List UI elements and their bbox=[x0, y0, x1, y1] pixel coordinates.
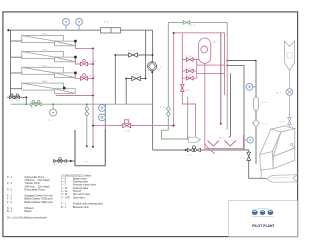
svg-text:HX-2: HX-2 bbox=[42, 50, 48, 52]
wire HX2 inlet stub bbox=[11, 56, 23, 58]
valve drain pair a bbox=[187, 148, 193, 152]
wire V2 drop to machine bbox=[244, 150, 249, 152]
banner label bbox=[266, 175, 297, 183]
wire pink tap HX4 bbox=[56, 95, 93, 97]
valve green check pair on drop bbox=[85, 107, 89, 116]
wire pink riser left bbox=[92, 48, 94, 146]
svg-text:V - 16: V - 16 bbox=[186, 56, 193, 58]
valve V-5 bbox=[132, 76, 141, 80]
svg-text:Basket Strainer 1984u pore: Basket Strainer 1984u pore bbox=[25, 201, 54, 204]
instrument FI right bbox=[253, 86, 256, 88]
valve V-2 vertical at machine bbox=[247, 152, 251, 160]
wire bypass V4 branch bbox=[115, 54, 152, 56]
wire pink hose bbox=[205, 144, 215, 154]
wire ladder right rail bbox=[196, 60, 198, 79]
enclosure bottom bbox=[205, 148, 244, 150]
svg-text:V - 4: V - 4 bbox=[130, 50, 135, 52]
HX labels bbox=[42, 33, 48, 83]
svg-text:A - 1: A - 1 bbox=[277, 91, 282, 94]
wire green header bbox=[11, 103, 153, 105]
instrument TI-2 bbox=[102, 107, 106, 109]
instrument PI-1 bbox=[65, 26, 67, 31]
sawtooth trough bbox=[208, 141, 237, 146]
instrument PI-2 bbox=[102, 116, 106, 118]
valve V-11 circle top bbox=[83, 59, 86, 62]
wire right stub lower bbox=[227, 64, 244, 66]
svg-text:Basket Strainer 3750u pore: Basket Strainer 3750u pore bbox=[25, 198, 54, 201]
bag flag top right bbox=[285, 41, 295, 71]
svg-text:Bypass valve: Bypass valve bbox=[73, 178, 87, 180]
iso machine bbox=[260, 126, 295, 170]
enclosure left edge / capsule drain bbox=[204, 63, 206, 148]
instrument circles top bbox=[63, 19, 256, 144]
svg-text:Aquagard Screen 7mm slot: Aquagard Screen 7mm slot bbox=[25, 195, 54, 198]
svg-text:V - 14: V - 14 bbox=[186, 75, 193, 77]
wire HX4 inlet stub bbox=[11, 88, 23, 90]
wire top supply line bbox=[8, 29, 153, 31]
svg-text:V - 8: V - 8 bbox=[280, 121, 285, 123]
svg-text:Drain valve: Drain valve bbox=[73, 196, 85, 199]
pump P-1 stem bbox=[52, 104, 54, 109]
svg-text:Recirculation Pump: Recirculation Pump bbox=[25, 189, 46, 192]
valve ladder 1 V-16 bbox=[186, 58, 193, 62]
svg-text:PILOT PLANT: PILOT PLANT bbox=[252, 224, 275, 228]
valve V-13 with actuator bbox=[123, 123, 131, 127]
wire valve to machine bbox=[289, 125, 291, 129]
wire bypass V5 branch bbox=[126, 78, 145, 80]
svg-text:V - 5: V - 5 bbox=[133, 74, 138, 76]
valve V-8 vertical bbox=[288, 118, 292, 125]
enclosure right edge lower bbox=[242, 135, 244, 149]
strainer F-3 bbox=[61, 159, 66, 162]
svg-text:Portable tank (cleaning tank): Portable tank (cleaning tank) bbox=[73, 203, 103, 206]
blower A-1 bbox=[286, 89, 293, 96]
svg-text:HX-1: HX-1 bbox=[42, 33, 48, 35]
wire flag to blower bbox=[289, 71, 291, 88]
wire main vertical bbox=[152, 30, 154, 150]
svg-text:Diffusers: Diffusers bbox=[25, 207, 35, 210]
svg-text:V - 8: V - 8 bbox=[61, 178, 67, 180]
svg-text:F - 3: F - 3 bbox=[7, 202, 12, 204]
wire stub B down bbox=[125, 79, 127, 105]
svg-text:B - 1: B - 1 bbox=[219, 137, 224, 139]
pink junction dots bbox=[92, 32, 175, 148]
instrument LI right bbox=[244, 139, 247, 141]
svg-text:HX-3: HX-3 bbox=[42, 65, 48, 67]
valve V-2 bbox=[15, 96, 20, 99]
svg-text:P - 2: P - 2 bbox=[7, 183, 13, 185]
svg-text:F - 6: F - 6 bbox=[262, 102, 267, 104]
wire pink tap HX1 bbox=[75, 41, 93, 48]
svg-text:Transfer Pump: Transfer Pump bbox=[25, 182, 41, 185]
wire ladder branch 1 bbox=[182, 59, 198, 61]
svg-text:(450 l/min ... 15m Head): (450 l/min ... 15m Head) bbox=[25, 186, 50, 188]
svg-text:V - 15: V - 15 bbox=[186, 67, 193, 69]
valve V-12 circle top bbox=[83, 74, 86, 77]
logo USU bbox=[252, 209, 274, 217]
valve V-13 actuator bbox=[125, 120, 129, 123]
small grey labels bbox=[10, 21, 285, 164]
rotameter F-6 bbox=[254, 97, 259, 111]
valve drain circle bbox=[192, 146, 195, 149]
svg-text:F - 2: F - 2 bbox=[7, 199, 12, 201]
wire drain line bottom bbox=[153, 149, 244, 151]
node drain bbox=[185, 149, 187, 151]
svg-text:16' x 1 by 6 UN diffraction in: 16' x 1 by 6 UN diffraction insert/tunne… bbox=[7, 217, 47, 220]
wire ladder branch 2 bbox=[182, 70, 196, 72]
node pump bottom bbox=[151, 71, 153, 73]
legend group 1 bbox=[7, 176, 54, 220]
enclosure B-1 box top bbox=[174, 32, 225, 34]
svg-text:B - 1: B - 1 bbox=[61, 207, 67, 209]
svg-text:HX-4: HX-4 bbox=[42, 80, 48, 83]
node HX outlet squares bbox=[63, 40, 77, 90]
svg-text:Vent off: Vent off bbox=[73, 190, 81, 193]
svg-text:V - 1/TR: V - 1/TR bbox=[61, 197, 70, 199]
wire ladder left rail bbox=[182, 33, 195, 140]
wire jacket feed lower bbox=[197, 72, 225, 74]
svg-text:V - 7: V - 7 bbox=[263, 124, 268, 126]
svg-text:A - 2: A - 2 bbox=[31, 106, 36, 109]
node right stubs bbox=[226, 60, 228, 62]
node valve line bbox=[25, 96, 27, 98]
wire green loop top bbox=[168, 21, 227, 23]
node main V4 bbox=[152, 54, 154, 56]
strainer circle bbox=[59, 158, 62, 161]
svg-text:V - 13: V - 13 bbox=[61, 188, 68, 190]
node fill line bbox=[70, 160, 72, 162]
title block box bbox=[229, 201, 298, 237]
GREY PIPING bbox=[7, 30, 266, 178]
wire pink horizontal to box bbox=[93, 125, 174, 127]
heat exchanger HX-3 bbox=[22, 67, 75, 77]
aerator A-2 circles bbox=[32, 100, 35, 103]
pump P-1 bbox=[50, 109, 57, 116]
PINK CIP NETWORK bbox=[56, 33, 244, 154]
node HX inlets bbox=[22, 40, 24, 42]
instrument TI-1 bbox=[78, 26, 80, 31]
wire in-box grey drop bbox=[187, 97, 189, 140]
svg-text:P - 3: P - 3 bbox=[7, 190, 13, 192]
filter F-8 bbox=[101, 28, 121, 33]
valve V-4 bbox=[129, 53, 138, 57]
drain arrow D-1 bbox=[188, 137, 200, 142]
wire stub A down bbox=[114, 55, 116, 104]
wire right vertical B bbox=[255, 61, 257, 98]
wire pink tap HX3 bbox=[75, 73, 93, 79]
wire green jog to drain arrow bbox=[161, 130, 188, 139]
svg-text:V - 7: V - 7 bbox=[61, 185, 67, 187]
pink labels bbox=[90, 42, 219, 133]
wire ladder branch 3 bbox=[182, 77, 196, 79]
svg-text:Solenoid valve: Solenoid valve bbox=[73, 188, 89, 190]
svg-text:Flushing valve: Flushing valve bbox=[73, 182, 89, 184]
wire in-box spray pipe bbox=[229, 73, 231, 137]
wire green right vertical bbox=[226, 22, 228, 129]
svg-text:F - 8: F - 8 bbox=[104, 21, 109, 23]
valve V-11 bbox=[81, 62, 88, 66]
wire HX1 inlet stub bbox=[11, 40, 23, 42]
svg-text:V - 13: V - 13 bbox=[124, 130, 131, 132]
valve drain pair b bbox=[195, 148, 201, 152]
wire pink tap HX2 bbox=[75, 57, 93, 64]
wire green loop left vertical bbox=[167, 22, 169, 130]
valve V-1 V-2 circles bbox=[11, 94, 13, 96]
svg-text:P - 2: P - 2 bbox=[157, 67, 162, 69]
svg-text:V - 2: V - 2 bbox=[240, 158, 245, 160]
svg-text:F - 5: F - 5 bbox=[160, 107, 165, 109]
svg-text:P - 1: P - 1 bbox=[7, 177, 13, 179]
svg-text:V - 14: V - 14 bbox=[61, 191, 68, 193]
aerator A-2 bbox=[31, 103, 41, 106]
svg-text:(450 l/min ... 15m Head): (450 l/min ... 15m Head) bbox=[25, 180, 50, 182]
node supply start bbox=[7, 29, 9, 31]
pink valves bbox=[81, 58, 194, 128]
valve V-12 bbox=[81, 76, 88, 80]
svg-text:T - 1: T - 1 bbox=[61, 204, 66, 206]
svg-text:V - 1: V - 1 bbox=[187, 154, 192, 156]
heat exchanger HX-1 bbox=[22, 36, 75, 46]
wire drop to green header bbox=[25, 97, 27, 104]
wire HX3 inlet stub bbox=[11, 72, 23, 74]
wire blower to valve bbox=[289, 95, 291, 117]
svg-text:B - 1: B - 1 bbox=[7, 211, 13, 213]
wire right vertical A bbox=[243, 65, 245, 150]
valve ladder 3 V-14 bbox=[186, 76, 193, 80]
svg-text:V - 16: V - 16 bbox=[61, 194, 68, 196]
green end dot bbox=[86, 145, 88, 147]
wire jacket feed upper bbox=[197, 64, 225, 66]
legend group 2 bbox=[61, 176, 103, 209]
HEAT EXCHANGERS bbox=[22, 36, 75, 94]
GREEN CIP NETWORK bbox=[11, 22, 228, 146]
green labels bbox=[31, 25, 196, 122]
wire pink riser to box top bbox=[173, 33, 175, 126]
svg-text:Submersible Pump: Submersible Pump bbox=[25, 176, 45, 179]
svg-text:1-13/8/10/12/13/11/21 Valves: 1-13/8/10/12/13/11/21 Valves bbox=[61, 176, 92, 178]
wire second vertical bbox=[145, 30, 147, 78]
heat exchanger HX-4 bbox=[22, 83, 75, 93]
green header junction dots bbox=[52, 104, 53, 105]
svg-text:Blower: Blower bbox=[25, 210, 32, 213]
svg-text:Pressure control valve: Pressure control valve bbox=[73, 184, 97, 187]
wire right stub upper bbox=[227, 60, 256, 62]
wire green drop to tank bbox=[86, 104, 88, 146]
svg-text:B - 1: B - 1 bbox=[213, 42, 218, 44]
enclosure right edge upper bbox=[224, 33, 226, 95]
strainer F-2 bbox=[54, 159, 59, 162]
wire machine to banner bbox=[260, 170, 262, 178]
wire valve line V1 V2 bbox=[7, 96, 27, 98]
check valve diamond V-7 bbox=[253, 119, 260, 127]
heat exchanger HX-2 bbox=[22, 52, 75, 62]
wire tank inlet pipe bbox=[104, 104, 106, 130]
valve V-1 bbox=[10, 53, 201, 152]
svg-text:V - 9: V - 9 bbox=[61, 182, 67, 184]
svg-text:Bioreactor tank: Bioreactor tank bbox=[73, 206, 89, 209]
svg-text:V - 6: V - 6 bbox=[191, 25, 196, 27]
valve green pair on loop vertical bbox=[166, 107, 170, 117]
svg-text:V - 12: V - 12 bbox=[90, 75, 97, 77]
svg-text:T - 1: T - 1 bbox=[84, 162, 89, 164]
wire tank fill line bbox=[53, 160, 75, 162]
pump P-2 bbox=[148, 62, 157, 71]
svg-text:Non return valve: Non return valve bbox=[73, 193, 91, 196]
svg-text:V - 11: V - 11 bbox=[90, 61, 96, 63]
wire left manifold bbox=[10, 30, 12, 97]
valve ladder 2 V-15 bbox=[186, 69, 193, 73]
vessel capsule bbox=[199, 38, 211, 63]
tank T-1 bbox=[75, 130, 105, 166]
crimson dip tube bbox=[220, 33, 222, 124]
svg-text:F - 1: F - 1 bbox=[7, 196, 12, 198]
svg-text:V-17: V-17 bbox=[185, 90, 190, 92]
valve V-6 green bbox=[183, 21, 190, 25]
valve ladder vertical V-17 bbox=[180, 84, 184, 91]
svg-text:P - 1: P - 1 bbox=[49, 120, 54, 122]
svg-text:D - 1: D - 1 bbox=[7, 208, 13, 210]
